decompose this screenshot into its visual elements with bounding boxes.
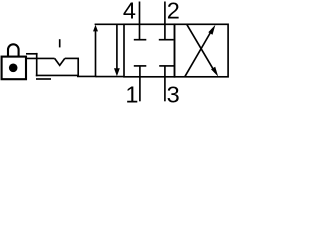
detent rod left segment bbox=[26, 57, 55, 59]
detent pin tick bbox=[59, 39, 61, 47]
port 2 stub bbox=[164, 2, 166, 40]
arrowhead up-right bbox=[208, 25, 215, 35]
svg-text:3: 3 bbox=[167, 81, 180, 106]
crossed path 4 to 3 bbox=[187, 24, 215, 72]
padlock body bbox=[2, 57, 26, 80]
detent rod right segment bbox=[65, 57, 79, 59]
port 2 blocked bar bbox=[159, 39, 174, 41]
arrowhead down-right bbox=[211, 67, 218, 77]
block bottom line bbox=[36, 74, 79, 76]
svg-text:1: 1 bbox=[125, 81, 138, 106]
port 4 blocked bar bbox=[134, 39, 147, 41]
port 1 stub bbox=[139, 66, 141, 101]
port 4 stub bbox=[139, 2, 141, 40]
bottom link to arrow bbox=[77, 75, 96, 77]
lock upper link bbox=[26, 53, 38, 55]
svg-text:4: 4 bbox=[123, 0, 136, 24]
port 3 stub bbox=[164, 66, 166, 101]
down arrow stem bbox=[116, 24, 118, 69]
padlock shackle bbox=[8, 44, 19, 56]
port 1 blocked bar bbox=[134, 65, 147, 67]
top edge extension bbox=[95, 23, 124, 25]
padlock dot bbox=[9, 64, 18, 73]
lock lower link / foot bbox=[36, 78, 51, 80]
svg-text:2: 2 bbox=[167, 0, 180, 24]
up arrow head bbox=[93, 25, 98, 32]
crossed path 1 to 2 bbox=[185, 29, 213, 77]
block right vertical bbox=[77, 58, 79, 76]
bottom edge extension bbox=[96, 76, 125, 78]
down arrow head bbox=[114, 68, 120, 76]
port 3 blocked bar bbox=[159, 65, 174, 67]
valve body left square bbox=[124, 24, 175, 77]
detent notch V bbox=[55, 58, 65, 65]
bracket left vertical bbox=[36, 53, 38, 76]
up arrow stem bbox=[95, 30, 97, 76]
valve body right square bbox=[175, 24, 229, 77]
